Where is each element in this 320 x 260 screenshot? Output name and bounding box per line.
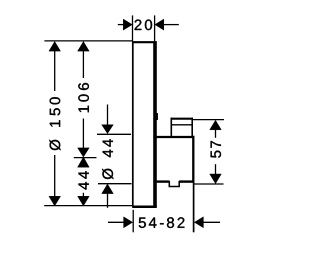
dimension O44 (knob diameter) (97, 105, 132, 208)
knob body bottom edge (157, 180, 170, 182)
knob top rib inner line (171, 124, 192, 126)
down arrow (49, 196, 61, 206)
down arrow (outside, above) (102, 125, 114, 134)
upper shaft (107, 105, 109, 125)
knob body top edge (157, 136, 195, 138)
label 54-82 (139, 217, 185, 228)
up arrow (78, 42, 90, 52)
knob body front edge (192, 136, 194, 183)
up arrow (210, 120, 222, 130)
up arrow (49, 42, 61, 52)
plate front face (right, thick) (153, 41, 157, 207)
dimension O150 (plate height) (49, 42, 61, 206)
label 57 (211, 141, 221, 158)
up arrow (outside, below) (102, 184, 114, 194)
label 20 (135, 20, 153, 31)
handle knob side view (157, 118, 195, 187)
knob bottom tab (169, 181, 179, 187)
label O150 (49, 97, 60, 150)
notch on plate front face (155, 113, 158, 120)
up arrow at split line (78, 157, 90, 167)
right extension line (193, 183, 195, 233)
left arrow (118, 24, 124, 26)
shaft lower (82, 193, 84, 197)
right arrow (164, 24, 179, 26)
right extension line (154, 15, 156, 41)
left arrow (108, 221, 124, 223)
plate left edge (wall line) (132, 41, 134, 207)
dimension 44 (lower left) (78, 157, 90, 206)
down arrow (78, 148, 90, 157)
plate bottom edge (132, 206, 157, 209)
shaft upper (82, 50, 84, 78)
shaft upper (54, 50, 56, 91)
bottom extension line (plate bottom reference) (44, 205, 133, 207)
lower shaft (107, 193, 109, 208)
shaft upper (215, 129, 217, 138)
top extension line (97, 133, 131, 135)
right arrow (203, 221, 221, 223)
left extension line (132, 15, 134, 41)
knob top rib right edge (191, 118, 193, 137)
dimension 106 (78, 42, 90, 158)
mid extension line (106/44 split) (74, 157, 97, 159)
label O44 (102, 139, 113, 179)
plate side view (132, 41, 158, 207)
left extension line (132, 210, 134, 233)
bottom extension line (98, 183, 132, 185)
label 44 (79, 171, 89, 189)
down arrow (210, 174, 222, 184)
top extension line (193, 119, 224, 121)
dimension 20 (plate depth) (118, 15, 179, 41)
bottom extension line (194, 183, 223, 185)
plate top edge (132, 41, 156, 43)
dimension 57 (knob height) (193, 120, 224, 184)
knob top rib top edge (171, 118, 193, 120)
shaft lower (82, 119, 84, 149)
knob top rib left edge (170, 118, 172, 137)
label 106 (78, 83, 89, 112)
top extension line (plate top reference) (44, 40, 132, 42)
down arrow (78, 196, 90, 206)
shaft lower (54, 155, 56, 197)
dimension 54-82 (installation depth) (108, 183, 220, 233)
shaft lower (215, 164, 217, 174)
